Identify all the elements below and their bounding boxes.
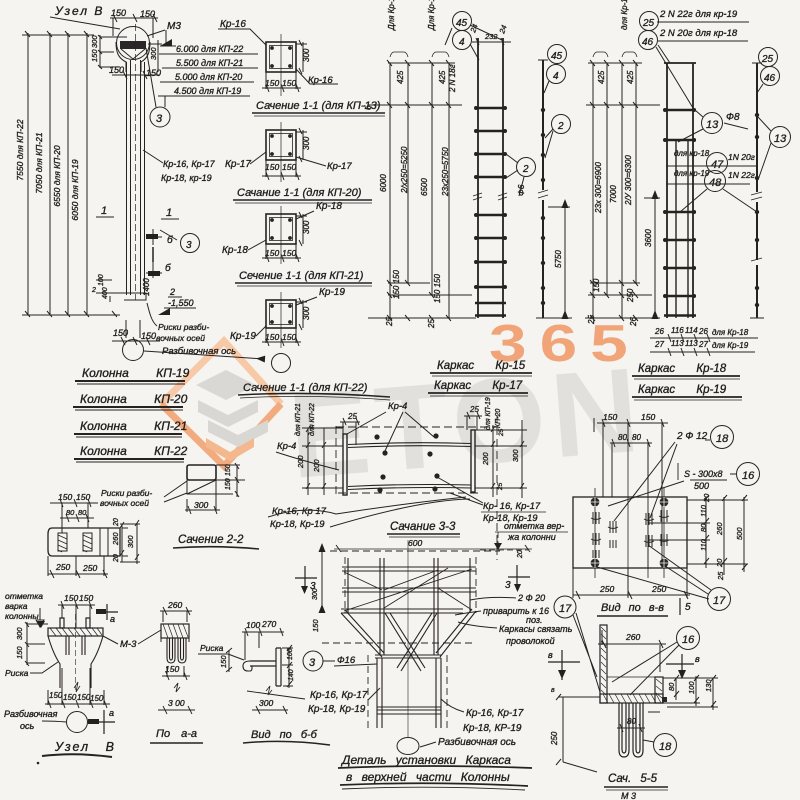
uzel V: bottom dims 150x4 bbox=[45, 668, 110, 708]
svg-text:4: 4 bbox=[459, 37, 465, 48]
svg-text:Колонна КП-22: Колонна КП-22 bbox=[80, 444, 188, 458]
svg-text:Разбивочная: Разбивочная bbox=[4, 709, 58, 719]
svg-text:80: 80 bbox=[632, 433, 641, 442]
label M3 bbox=[147, 21, 181, 36]
ladder1 dim rotated texts bbox=[364, 0, 450, 329]
vid po v-v: corner bolts bbox=[590, 497, 669, 568]
callout circle 3 bbox=[146, 48, 170, 127]
svg-text:2 N 22г для кр-19: 2 N 22г для кр-19 bbox=[659, 9, 738, 20]
svg-text:для Кр-19: для Кр-19 bbox=[712, 341, 749, 350]
section 3-3 left Kr labels bbox=[268, 497, 470, 530]
svg-text:для кр-18: для кр-18 bbox=[674, 149, 710, 158]
section square Kr-17 bbox=[262, 122, 311, 182]
svg-text:150: 150 bbox=[146, 68, 161, 78]
dim 150 150 under column bbox=[112, 320, 160, 345]
svg-text:425: 425 bbox=[626, 70, 635, 84]
svg-text:45: 45 bbox=[551, 51, 563, 62]
caption section 2-2 bbox=[173, 534, 259, 549]
caption po a-a bbox=[150, 728, 203, 743]
callout circles 45/4 ladder1 bbox=[445, 12, 502, 61]
svg-text:а: а bbox=[110, 614, 115, 624]
labels Kr-17 bbox=[225, 152, 352, 172]
kr labels right of detail bbox=[441, 699, 524, 734]
svg-text:250: 250 bbox=[550, 731, 559, 746]
section 3-3 left plate bbox=[343, 434, 347, 495]
svg-text:80: 80 bbox=[618, 433, 627, 442]
callout 13 left with F8 bbox=[678, 110, 748, 142]
kolonna table row 4 bbox=[74, 444, 188, 462]
svg-text:1: 1 bbox=[101, 205, 107, 217]
svg-text:150: 150 bbox=[311, 619, 320, 632]
svg-text:80: 80 bbox=[699, 523, 708, 532]
svg-text:200: 200 bbox=[296, 455, 305, 469]
svg-text:25: 25 bbox=[497, 482, 504, 491]
svg-text:2 N 18г: 2 N 18г bbox=[448, 64, 457, 93]
svg-text:25: 25 bbox=[587, 315, 596, 325]
svg-text:300: 300 bbox=[302, 48, 311, 62]
svg-text:М-3: М-3 bbox=[120, 639, 137, 650]
svg-text:1: 1 bbox=[166, 207, 172, 219]
ladder1 (Karkas Kr-15/17) rails bbox=[478, 38, 503, 318]
svg-text:2: 2 bbox=[557, 121, 564, 132]
dim 1400 bbox=[142, 278, 151, 296]
labels Kr-18 bbox=[222, 201, 342, 256]
svg-text:47: 47 bbox=[711, 159, 724, 171]
svg-text:колонны: колонны bbox=[5, 611, 39, 621]
ladder1 break marks bbox=[473, 193, 507, 200]
vid po v-v: plate bbox=[573, 443, 687, 578]
svg-text:б: б bbox=[165, 262, 171, 274]
svg-text:300: 300 bbox=[511, 449, 520, 462]
svg-text:Сачание 3-3: Сачание 3-3 bbox=[390, 521, 456, 533]
top callouts 25/46 with labels 2N22g/2N20g bbox=[639, 9, 750, 108]
vid po b-b: dims 100 270 bbox=[242, 619, 284, 660]
svg-text:Сачение 1-1 (для КП-13): Сачение 1-1 (для КП-13) bbox=[256, 100, 381, 112]
svg-text:17: 17 bbox=[559, 603, 572, 615]
svg-text:300: 300 bbox=[302, 306, 311, 320]
svg-text:27: 27 bbox=[698, 340, 708, 349]
svg-text:250: 250 bbox=[55, 562, 70, 572]
svg-text:300: 300 bbox=[15, 627, 24, 640]
v section mark near detail bbox=[548, 650, 580, 680]
svg-text:для КП-22: для КП-22 bbox=[308, 403, 316, 436]
svg-text:150: 150 bbox=[90, 49, 99, 62]
callouts 25/46 ladder4 bbox=[757, 48, 780, 94]
logo inner chevron 3 bbox=[208, 420, 268, 447]
ladder3 rails bbox=[664, 63, 696, 318]
vid po b-b: profile bbox=[243, 648, 281, 686]
svg-text:1N 20г: 1N 20г bbox=[728, 152, 755, 162]
svg-text:Кр-16, Кр-17: Кр-16, Кр-17 bbox=[163, 159, 216, 169]
svg-text:18: 18 bbox=[659, 741, 672, 753]
svg-text:114: 114 bbox=[685, 326, 698, 335]
ladder1 rung end dots bbox=[474, 106, 507, 289]
svg-text:425: 425 bbox=[438, 70, 447, 84]
sech 5-5: channel U bbox=[600, 625, 667, 703]
top dim 150 150 bbox=[110, 8, 158, 38]
caption section 1-1 (Kr-22) bbox=[238, 382, 390, 400]
vid po b-b: right dims bbox=[282, 645, 295, 688]
callout 3 F16 bbox=[303, 651, 377, 671]
section 3-3 chords bbox=[348, 443, 471, 490]
svg-text:600: 600 bbox=[408, 538, 422, 548]
ladder1 top dim 24 232 24 bbox=[468, 23, 511, 45]
svg-text:Разбивочная ось: Разбивочная ось bbox=[162, 346, 236, 357]
svg-text:отметка вер-: отметка вер- bbox=[504, 521, 564, 531]
ladder3 dim lines group bbox=[585, 52, 660, 321]
splice row 1: dlya kr-18 / 1N20g / callout 47 bbox=[666, 149, 757, 174]
left dim 300/150 of head bbox=[90, 35, 127, 69]
M-3 label with leaders bbox=[103, 630, 161, 650]
svg-text:в: в bbox=[695, 654, 700, 664]
section square Kr-19 bbox=[262, 292, 311, 348]
svg-text:для КП-19: для КП-19 bbox=[484, 397, 492, 430]
detail axis ellipse bbox=[397, 738, 419, 755]
logo diamond top edges (gray-peach) bbox=[161, 341, 281, 404]
svg-text:Каркас Кр-15: Каркас Кр-15 bbox=[437, 360, 526, 372]
kolonna table row 1 bbox=[75, 366, 190, 384]
3600 dim line bbox=[654, 198, 656, 318]
svg-text:Кр-4: Кр-4 bbox=[277, 441, 296, 452]
section 2-2 dims bbox=[48, 492, 140, 578]
svg-text:для кр-19: для кр-19 bbox=[674, 169, 710, 178]
callout 18 sech5-5 bbox=[643, 734, 677, 757]
svg-text:80: 80 bbox=[78, 508, 87, 517]
caption Karkas Kr-18 bbox=[632, 363, 740, 379]
svg-text:6500: 6500 bbox=[420, 178, 429, 196]
svg-text:Колонна КП-21: Колонна КП-21 bbox=[80, 419, 187, 433]
svg-text:Кр-17: Кр-17 bbox=[225, 159, 251, 170]
svg-text:Вид по в-в: Вид по в-в bbox=[601, 602, 664, 614]
section 3-3 right plate bbox=[471, 430, 475, 492]
ladder1 dim lines group bbox=[368, 52, 476, 321]
svg-text:80: 80 bbox=[66, 508, 75, 517]
svg-text:б: б bbox=[364, 105, 373, 110]
section mark b upper bbox=[146, 229, 200, 253]
svg-text:для Кр-18: для Кр-18 bbox=[620, 0, 629, 30]
ladder4 dots bbox=[755, 113, 759, 307]
detail collar bbox=[375, 655, 441, 658]
section square Kr-18 bbox=[262, 206, 311, 264]
callout 17 left bbox=[554, 596, 600, 692]
svg-text:3: 3 bbox=[156, 113, 163, 125]
svg-text:Кр-18: Кр-18 bbox=[222, 245, 248, 256]
section mark b lower bbox=[146, 247, 171, 278]
svg-text:18: 18 bbox=[716, 433, 729, 445]
svg-text:200: 200 bbox=[312, 459, 321, 473]
svg-text:а: а bbox=[109, 708, 114, 718]
svg-text:200: 200 bbox=[481, 452, 490, 466]
ladder1 rungs bbox=[475, 108, 506, 316]
kolonna table row 2 bbox=[73, 392, 188, 410]
label 2F12 + callout 18 bbox=[614, 426, 734, 522]
svg-text:2/У 300=6300: 2/У 300=6300 bbox=[624, 155, 633, 206]
caption section 1-1 (Kr-13) bbox=[252, 100, 385, 116]
svg-text:300: 300 bbox=[126, 535, 135, 548]
svg-text:25: 25 bbox=[427, 319, 436, 329]
caption vid po v-v bbox=[597, 598, 691, 616]
svg-text:отметка: отметка bbox=[5, 591, 43, 601]
caption Karkas Kr-17 bbox=[428, 380, 528, 396]
svg-text:Риски разби-: Риски разби- bbox=[101, 488, 152, 498]
detail funnel sides bbox=[341, 609, 476, 657]
svg-text:Каркасы связать: Каркасы связать bbox=[499, 624, 573, 634]
caption detail line2 bbox=[340, 770, 528, 790]
svg-text:Разбивочная ось: Разбивочная ось bbox=[438, 736, 516, 748]
svg-text:6.000 для КП-22: 6.000 для КП-22 bbox=[176, 44, 243, 54]
svg-text:Сачание 1-1 (для КП-20): Сачание 1-1 (для КП-20) bbox=[237, 187, 362, 199]
svg-text:3600: 3600 bbox=[644, 229, 653, 247]
svg-text:260: 260 bbox=[715, 522, 724, 536]
svg-text:45: 45 bbox=[456, 18, 468, 29]
ladder4 single bar bbox=[750, 63, 764, 318]
svg-text:2 Ф 20: 2 Ф 20 bbox=[517, 593, 545, 603]
po a-a: channel section bbox=[161, 624, 189, 663]
caption sech 5-5 bbox=[604, 773, 668, 800]
svg-text:в верхней части Колонны: в верхней части Колонны bbox=[346, 770, 510, 784]
svg-text:Деталь установки Каркаса: Деталь установки Каркаса bbox=[340, 753, 511, 767]
svg-text:250: 250 bbox=[651, 584, 666, 594]
svg-text:150: 150 bbox=[282, 78, 296, 88]
svg-text:425: 425 bbox=[396, 70, 405, 84]
svg-text:25: 25 bbox=[642, 18, 655, 29]
svg-text:150: 150 bbox=[282, 248, 296, 258]
svg-text:17: 17 bbox=[713, 595, 726, 607]
svg-text:150: 150 bbox=[15, 646, 24, 659]
section mark 3 left bbox=[295, 566, 319, 600]
svg-text:113: 113 bbox=[685, 339, 698, 348]
caption detail line1 bbox=[338, 753, 532, 768]
svg-text:варка: варка bbox=[5, 601, 28, 611]
svg-text:Для Кр-17: Для Кр-17 bbox=[427, 0, 436, 31]
svg-text:Ф6: Ф6 bbox=[516, 184, 526, 196]
callout circle 2 left bbox=[506, 154, 536, 196]
detail 150 dim left bbox=[311, 551, 322, 632]
section mark 3 right bbox=[505, 565, 530, 592]
uzel V: dim 150 150 top bbox=[58, 593, 95, 628]
svg-text:150: 150 bbox=[109, 65, 124, 75]
section 3-3 right dims bbox=[464, 397, 527, 498]
svg-text:16: 16 bbox=[742, 470, 755, 482]
detail frame wale beams bbox=[341, 567, 476, 613]
svg-text:116: 116 bbox=[671, 326, 684, 335]
po a-a: dim 150 bbox=[162, 664, 190, 680]
svg-text:300: 300 bbox=[302, 136, 311, 150]
svg-text:Каркас Кр-18: Каркас Кр-18 bbox=[638, 363, 727, 375]
svg-text:М 3: М 3 bbox=[621, 791, 636, 800]
svg-text:13: 13 bbox=[706, 119, 719, 131]
svg-text:300: 300 bbox=[259, 698, 273, 708]
svg-text:100: 100 bbox=[246, 620, 260, 630]
svg-text:150: 150 bbox=[77, 693, 91, 702]
callout 16 sech5-5 bbox=[612, 627, 700, 696]
svg-text:3: 3 bbox=[505, 580, 511, 591]
svg-text:По а-а: По а-а bbox=[156, 728, 197, 740]
po a-a: dim 260 bbox=[160, 600, 192, 622]
svg-text:7050 для КП-21: 7050 для КП-21 bbox=[34, 132, 44, 193]
svg-text:150: 150 bbox=[641, 412, 655, 422]
logo inner chevron 1 bbox=[196, 370, 256, 400]
caption uzel V bbox=[42, 740, 116, 757]
svg-text:25: 25 bbox=[761, 54, 774, 65]
left vertical dimension lines bbox=[22, 31, 120, 317]
svg-text:ось: ось bbox=[20, 721, 35, 731]
splice row 2: dlya kr-19 / 1N22g / callout 48 bbox=[666, 169, 757, 212]
ladder3 rung dots bbox=[663, 108, 696, 298]
svg-text:проволокой: проволокой bbox=[506, 636, 555, 646]
uzel V: otmetka note bbox=[5, 591, 45, 628]
svg-text:500: 500 bbox=[735, 527, 744, 540]
svg-text:в: в bbox=[548, 650, 553, 660]
svg-text:Для Кр-16: Для Кр-16 bbox=[387, 0, 396, 31]
logo inner chevron 2 bbox=[198, 400, 258, 427]
vid po v-v: top dims 150 150 / 80 80 bbox=[594, 412, 668, 500]
svg-text:150 150: 150 150 bbox=[433, 274, 442, 303]
svg-text:Узел В: Узел В bbox=[54, 740, 116, 754]
column head bearing plate (M3) hatched bbox=[120, 41, 146, 59]
svg-text:2: 2 bbox=[522, 164, 529, 175]
label Kr-16 with leaders bbox=[218, 19, 338, 86]
kr labels left of detail bbox=[308, 688, 380, 715]
logo inner chevron orange bbox=[206, 438, 254, 461]
section 3-3 Kr-4 top label bbox=[347, 401, 434, 451]
svg-text:-1,550: -1,550 bbox=[168, 298, 194, 308]
svg-text:26: 26 bbox=[654, 327, 664, 336]
svg-text:100: 100 bbox=[687, 681, 696, 694]
svg-text:Колонна КП-20: Колонна КП-20 bbox=[80, 392, 188, 406]
section 3-3 dashed box bbox=[336, 415, 497, 560]
section 2-2 plate bbox=[48, 514, 120, 556]
uzel V: bearing plate hatched bbox=[48, 628, 103, 636]
svg-text:5: 5 bbox=[685, 602, 691, 613]
sech 5-5: right dims 80 100 130 bbox=[663, 675, 718, 710]
svg-text:М3: М3 bbox=[167, 21, 181, 32]
sech 5-5: hanging anchor loops bbox=[619, 703, 643, 757]
svg-text:25: 25 bbox=[469, 405, 479, 414]
svg-text:Вид по б-б: Вид по б-б bbox=[251, 729, 318, 741]
svg-text:150: 150 bbox=[282, 332, 296, 342]
svg-text:3: 3 bbox=[309, 657, 316, 669]
vid po v-v: anchor hatch clusters bbox=[591, 510, 669, 558]
uzel V: left dims 300 150 bbox=[15, 622, 48, 666]
svg-text:для Кр-18: для Кр-18 bbox=[712, 328, 749, 337]
vid po b-b: riska label bbox=[198, 643, 244, 660]
svg-text:1N 22г: 1N 22г bbox=[728, 170, 755, 180]
svg-text:Ф8: Ф8 bbox=[726, 112, 740, 123]
svg-text:300: 300 bbox=[194, 500, 208, 510]
svg-text:Кр-18, кр-19: Кр-18, кр-19 bbox=[161, 173, 212, 183]
svg-text:150: 150 bbox=[265, 162, 279, 172]
axis circle below square bbox=[272, 354, 291, 373]
section square Kr-16 bbox=[262, 34, 311, 96]
svg-text:Каркас Кр-17: Каркас Кр-17 bbox=[434, 380, 523, 392]
svg-text:25: 25 bbox=[498, 428, 505, 437]
detail inner struts bbox=[385, 613, 437, 671]
uzel V: axis circle bbox=[67, 712, 88, 733]
svg-text:КП-20: КП-20 bbox=[495, 409, 502, 428]
svg-text:Кр-4: Кр-4 bbox=[388, 401, 407, 412]
vid po v-v: right dims bbox=[687, 493, 748, 581]
svg-text:27: 27 bbox=[654, 340, 664, 349]
svg-text:Каркас Кр-19: Каркас Кр-19 bbox=[638, 384, 727, 396]
svg-text:250: 250 bbox=[599, 584, 614, 594]
svg-text:150: 150 bbox=[225, 478, 232, 490]
svg-text:Кр-18, Кр-19: Кр-18, Кр-19 bbox=[308, 704, 366, 715]
svg-text:26: 26 bbox=[629, 317, 638, 327]
column head circle bbox=[117, 27, 150, 60]
svg-text:150: 150 bbox=[603, 412, 617, 422]
svg-text:20: 20 bbox=[113, 518, 120, 527]
level labels 6.000 ... 4.500 bbox=[158, 44, 258, 107]
svg-text:150: 150 bbox=[64, 593, 78, 603]
vid po v-v: bottom dims 250 250 bbox=[573, 568, 690, 599]
svg-text:150 150: 150 150 bbox=[392, 270, 401, 299]
caption vid po b-b bbox=[243, 729, 330, 745]
svg-text:Риски разби-: Риски разби- bbox=[158, 322, 209, 332]
razbivochnaya os label detail bbox=[420, 736, 516, 748]
caption section 1-1 (Kr-20) bbox=[233, 187, 372, 203]
svg-text:Риска: Риска bbox=[5, 668, 29, 678]
vid po b-b: left 150 dim bbox=[219, 648, 232, 672]
uzel V: funnel body bbox=[48, 614, 103, 690]
detail frame verticals bbox=[348, 558, 470, 655]
column head funnel outline bbox=[116, 42, 150, 72]
svg-text:Сачение 2-2: Сачение 2-2 bbox=[178, 534, 244, 546]
v section mark sech5-5 bbox=[666, 654, 700, 679]
svg-text:Кр-18, КР-19: Кр-18, КР-19 bbox=[463, 723, 522, 734]
level mark -1.550 bbox=[158, 287, 196, 315]
uzel V: riska label bbox=[5, 662, 58, 678]
stray dot bbox=[37, 762, 40, 765]
svg-text:S - 300х8: S - 300х8 bbox=[684, 469, 723, 479]
svg-text:23х250=5750: 23х250=5750 bbox=[441, 147, 450, 197]
svg-text:6050 для КП-19: 6050 для КП-19 bbox=[70, 159, 80, 220]
svg-text:Сачение 1-1 (для КП-22): Сачение 1-1 (для КП-22) bbox=[243, 382, 368, 394]
svg-text:2: 2 bbox=[169, 287, 175, 297]
svg-text:46: 46 bbox=[642, 37, 654, 48]
svg-text:вочных осей: вочных осей bbox=[156, 333, 205, 343]
svg-text:6000: 6000 bbox=[379, 174, 388, 192]
svg-text:Риска: Риска bbox=[200, 643, 224, 653]
svg-text:Кр-16, Кр 17: Кр-16, Кр 17 bbox=[272, 506, 327, 517]
svg-text:150: 150 bbox=[63, 693, 77, 702]
svg-text:Кр- 16, Кр-17: Кр- 16, Кр-17 bbox=[483, 501, 541, 512]
ladder3 mid bars bbox=[676, 140, 688, 318]
svg-text:150: 150 bbox=[592, 278, 601, 292]
svg-text:Кр-16: Кр-16 bbox=[220, 19, 246, 30]
svg-text:5.000 для КП-20: 5.000 для КП-20 bbox=[175, 72, 242, 82]
svg-text:Кр-17: Кр-17 bbox=[327, 161, 352, 172]
callout circle 2 right bbox=[545, 115, 571, 159]
svg-text:5750: 5750 bbox=[554, 250, 563, 268]
svg-text:в: в bbox=[551, 687, 555, 694]
svg-text:113: 113 bbox=[671, 339, 684, 348]
svg-text:150: 150 bbox=[265, 78, 279, 88]
sech 5-5: dim 80 bottom bbox=[617, 712, 660, 732]
svg-text:150: 150 bbox=[265, 248, 279, 258]
svg-text:7550 для КП-22: 7550 для КП-22 bbox=[15, 119, 25, 180]
svg-text:260: 260 bbox=[111, 532, 120, 546]
razbivochnaya os axis label and circles bbox=[123, 340, 265, 361]
section 3-3 bolts bbox=[374, 433, 439, 492]
svg-text:Кр-19: Кр-19 bbox=[230, 331, 256, 342]
uzel V: a section mark bottom bbox=[88, 708, 115, 734]
bottom dim rows for kr-18/19 bbox=[650, 326, 758, 356]
svg-text:16: 16 bbox=[682, 634, 695, 646]
logo diamond bottom edges (orange) bbox=[161, 404, 281, 466]
svg-text:3: 3 bbox=[186, 240, 192, 251]
kolonna table row 3 bbox=[74, 419, 187, 437]
